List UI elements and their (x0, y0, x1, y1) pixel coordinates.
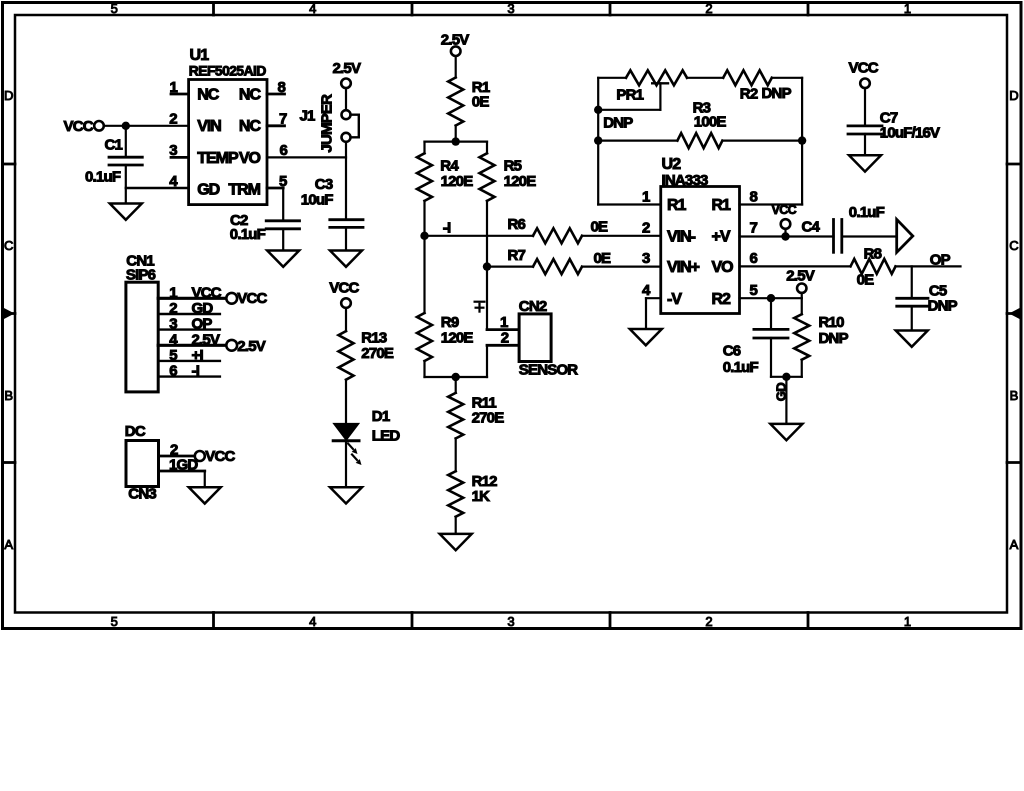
wire CN2 pin2 to R9/R11 rail (487, 344, 519, 347)
svg-text:VCC: VCC (192, 284, 222, 301)
junction pin5/C6 (767, 294, 775, 302)
svg-text:2: 2 (705, 1, 712, 16)
ground below C2 (267, 251, 299, 267)
svg-text:OP: OP (192, 316, 213, 333)
svg-text:C3: C3 (315, 176, 333, 193)
wire VCC to U1 pin2 (104, 125, 189, 127)
svg-text:1: 1 (500, 314, 508, 331)
wire GD rail to ground (785, 377, 787, 424)
svg-text:GD: GD (197, 182, 219, 199)
svg-text:R2: R2 (712, 291, 732, 308)
wire R5 node down to CN2 pin1 (486, 267, 488, 330)
svg-text:5: 5 (111, 1, 118, 16)
capacitor C2 0.1uF (266, 219, 299, 222)
svg-text:-I: -I (443, 220, 451, 237)
svg-text:7: 7 (750, 219, 758, 236)
capacitor C5 DNP (911, 266, 913, 298)
wire R12 to ground (455, 517, 457, 534)
svg-text:B: B (1010, 388, 1019, 403)
svg-text:NC: NC (239, 118, 262, 135)
wire rail R4-R5 tops (425, 141, 488, 143)
resistor R10 DNP (801, 298, 803, 314)
svg-text:U2: U2 (662, 156, 682, 173)
VCC terminal at U2 pin7 (781, 219, 791, 229)
resistor R3 100E (598, 140, 677, 142)
svg-text:10uF/16V: 10uF/16V (880, 124, 940, 141)
ground below C1 (110, 204, 142, 220)
svg-text:DNP: DNP (603, 114, 633, 131)
svg-text:TEMP: TEMP (197, 150, 239, 167)
ground below CN3 (189, 487, 221, 503)
wire R13 to D1 (345, 380, 347, 424)
U1 pin 7 stub (267, 124, 285, 127)
svg-text:+I: +I (192, 347, 204, 364)
junction R4 / -I node (420, 232, 428, 240)
svg-text:2: 2 (642, 219, 650, 236)
svg-text:C1: C1 (105, 137, 123, 154)
CN1 pin 2 (GD) (158, 313, 220, 315)
wire left branch of gain loop (597, 78, 599, 205)
terminal 2.5V at CN1 pin4 (226, 340, 237, 351)
svg-text:0E: 0E (594, 250, 612, 267)
ground below C7 (849, 155, 881, 171)
svg-text:OP: OP (930, 251, 951, 268)
svg-text:D: D (4, 88, 13, 103)
svg-text:NC: NC (197, 86, 220, 103)
wire U2 pin7 to C4 (740, 235, 834, 237)
svg-text:0.1uF: 0.1uF (849, 204, 885, 221)
wire U1 GD pin4 to C1 (126, 187, 189, 189)
svg-text:REF5025AID: REF5025AID (189, 64, 267, 79)
U1 pin 8 stub (267, 93, 285, 96)
svg-text:1: 1 (904, 614, 911, 629)
svg-text:2: 2 (705, 614, 712, 629)
svg-text:A: A (4, 537, 13, 552)
junction node VCC/C1 (122, 122, 130, 130)
svg-text:3: 3 (642, 250, 650, 267)
svg-text:B: B (4, 388, 13, 403)
resistor R6 0E (533, 228, 582, 243)
junction R3 left (594, 136, 602, 144)
svg-text:100E: 100E (694, 114, 727, 131)
junction pin7/VCC (781, 232, 789, 240)
svg-text:VCC: VCC (849, 59, 879, 76)
junction GD rail (782, 373, 790, 381)
drawing frame outer border (3, 3, 1022, 629)
ground below GD rail (770, 424, 802, 440)
svg-text:1: 1 (170, 79, 178, 96)
svg-text:2: 2 (169, 300, 177, 317)
svg-text:CN3: CN3 (128, 486, 156, 503)
wire D1 to ground (345, 441, 347, 487)
frame center arrow right (1009, 308, 1021, 320)
svg-text:3: 3 (169, 316, 177, 333)
svg-text:NC: NC (239, 86, 262, 103)
svg-text:6: 6 (750, 250, 758, 267)
junction R5 / R7 node (483, 262, 491, 270)
svg-text:120E: 120E (441, 173, 474, 190)
junction R1 bottom (452, 137, 460, 145)
svg-text:R8: R8 (864, 245, 882, 262)
terminal VCC at CN1 pin1 (226, 293, 237, 304)
svg-text:VIN-: VIN- (667, 229, 696, 246)
svg-text:U1: U1 (190, 47, 210, 64)
wire R5 node to U2 VIN+ with R7 (487, 266, 533, 268)
svg-text:A: A (1010, 537, 1019, 552)
wire U2 pin6 VO to R8 (740, 265, 851, 267)
svg-text:1: 1 (169, 284, 177, 301)
svg-text:C6: C6 (723, 343, 741, 360)
resistor R1 0E (455, 56, 457, 77)
ground below C5 (896, 331, 928, 347)
GD rail below C6/R10 (771, 376, 802, 378)
capacitor C3 10uF (330, 218, 363, 221)
svg-text:JUMPER: JUMPER (319, 94, 336, 153)
svg-text:D1: D1 (372, 408, 390, 425)
svg-text:8: 8 (750, 189, 758, 206)
svg-text:2.5V: 2.5V (237, 338, 265, 355)
junction rail to R11 (452, 373, 460, 381)
ground below R12 (440, 534, 472, 550)
svg-text:TRM: TRM (228, 182, 260, 199)
capacitor C6 0.1uF (770, 298, 772, 329)
wire U1 pin6 VO to jumper column (267, 156, 346, 158)
svg-text:7: 7 (279, 110, 287, 127)
svg-text:5: 5 (169, 347, 177, 364)
svg-text:VIN+: VIN+ (667, 259, 700, 276)
jumper J1 pin circles and shunt (342, 110, 351, 119)
svg-text:VCC: VCC (205, 448, 235, 465)
svg-text:2.5V: 2.5V (786, 268, 814, 285)
wire -I node to U2 VIN- with R6 (425, 235, 534, 237)
svg-text:C4: C4 (802, 219, 821, 236)
frame column dividers (212, 3, 215, 16)
svg-text:3: 3 (169, 142, 177, 159)
CN1 pin 1 (VCC) (158, 297, 227, 300)
potentiometer PR1 element (626, 70, 687, 85)
svg-text:-V: -V (667, 291, 682, 308)
resistor R4 120E (423, 142, 425, 154)
svg-text:VO: VO (712, 259, 734, 276)
U1 pin 3 stub (171, 156, 189, 159)
svg-text:R10: R10 (819, 314, 845, 331)
resistor R7 0E (533, 259, 582, 274)
capacitor C1 0.1uF (125, 126, 127, 157)
svg-text:3: 3 (507, 1, 514, 16)
svg-text:5: 5 (750, 282, 758, 299)
svg-text:R1: R1 (712, 197, 732, 214)
LED D1 anode triangle (334, 424, 359, 440)
svg-text:0E: 0E (472, 94, 490, 111)
svg-text:2.5V: 2.5V (192, 331, 220, 348)
wire U2 pin8 to right branch (740, 203, 803, 205)
svg-text:DNP: DNP (928, 298, 958, 315)
frame row dividers (3, 163, 16, 166)
resistor R9 120E (423, 236, 425, 313)
svg-text:-I: -I (192, 363, 200, 380)
resistor R12 1K (448, 471, 463, 517)
wire U2 pin1 to left branch (598, 203, 661, 205)
svg-text:INA333: INA333 (662, 172, 709, 189)
svg-text:GD: GD (192, 300, 214, 317)
svg-text:0.1uF: 0.1uF (723, 359, 759, 376)
svg-text:5: 5 (111, 614, 118, 629)
ground below C3 (330, 251, 362, 267)
svg-text:R2: R2 (740, 86, 758, 103)
top rail of loop (598, 77, 626, 79)
LED D1 cathode bar (333, 439, 359, 442)
svg-text:2.5V: 2.5V (333, 60, 361, 77)
svg-text:VCC: VCC (64, 118, 94, 135)
resistor R2 DNP (723, 70, 772, 85)
IC U1 REF5025AID body (189, 80, 267, 205)
svg-text:1GD: 1GD (169, 457, 198, 474)
svg-text:VIN: VIN (197, 118, 221, 135)
wire C4 to output port (842, 235, 897, 237)
svg-text:0E: 0E (591, 219, 609, 236)
svg-text:6: 6 (169, 363, 177, 380)
wire U2 pin5 R2 to 2.5V column (740, 297, 802, 299)
svg-text:VCC: VCC (329, 280, 359, 297)
ground below D1 (330, 487, 362, 503)
svg-text:R6: R6 (508, 216, 526, 233)
CN1 pin 6 (-I) (158, 375, 220, 377)
svg-text:120E: 120E (441, 329, 474, 346)
CN3 pin 2 wire to VCC terminal (159, 455, 196, 458)
PR1 wiper (652, 82, 668, 84)
svg-text:0E: 0E (857, 272, 875, 289)
svg-text:SENSOR: SENSOR (519, 361, 579, 378)
svg-text:270E: 270E (472, 410, 505, 427)
U2 pin4 -V wire to ground (646, 297, 661, 299)
IC U2 INA333 body (661, 187, 740, 314)
resistor R8 0E (851, 259, 896, 274)
svg-text:R1: R1 (667, 197, 687, 214)
svg-text:0.1uF: 0.1uF (230, 226, 266, 243)
CN1 pin 5 (+I) (158, 360, 220, 362)
wire jumper to VO node and C3 (345, 142, 347, 220)
svg-text:VO: VO (239, 150, 261, 167)
wire R11 to R12 (455, 438, 457, 471)
output port triangle (897, 219, 913, 252)
CN3 pin 1 GD wire (159, 470, 205, 473)
wire 2.5V to jumper (345, 88, 347, 110)
LED light emission arrows (348, 444, 362, 466)
svg-text:J1: J1 (300, 107, 316, 124)
svg-text:VCC: VCC (772, 203, 797, 217)
svg-text:C: C (1009, 238, 1018, 253)
svg-text:3: 3 (507, 614, 514, 629)
resistor R5 120E (486, 142, 488, 154)
svg-text:10uF: 10uF (301, 191, 333, 208)
connector CN1 SIP6 body (126, 282, 158, 392)
svg-text:1: 1 (642, 189, 650, 206)
svg-text:DNP: DNP (762, 85, 792, 102)
svg-text:4: 4 (309, 614, 316, 629)
svg-text:VCC: VCC (237, 290, 267, 307)
+I net label rotated (bar over plus) (475, 302, 485, 312)
U1 pin 1 stub (171, 93, 189, 96)
ground below U2 pin4 (630, 329, 662, 345)
resistor R13 270E (345, 308, 347, 331)
junction PR1 wiper to left branch (594, 106, 602, 114)
svg-text:DC: DC (125, 423, 146, 440)
connector CN2 SENSOR body (519, 314, 551, 362)
svg-text:8: 8 (278, 79, 286, 96)
wire U1 pin5 TRM to C2 (267, 187, 283, 190)
frame center arrow left (3, 308, 15, 320)
svg-text:120E: 120E (504, 173, 537, 190)
svg-text:SIP6: SIP6 (126, 267, 156, 284)
svg-text:R7: R7 (508, 247, 526, 264)
CN1 pin 4 (2.5V) (158, 344, 227, 347)
svg-text:0.1uF: 0.1uF (85, 169, 121, 186)
svg-text:C: C (4, 238, 13, 253)
capacitor C7 10uF/16V (864, 88, 866, 126)
drawing frame inner border (15, 15, 1007, 613)
svg-text:CN2: CN2 (519, 298, 547, 315)
svg-text:+V: +V (712, 229, 731, 246)
svg-text:D: D (1009, 88, 1018, 103)
right branch of loop (801, 78, 803, 205)
svg-text:1K: 1K (472, 488, 491, 505)
connector CN3 DC body (126, 441, 159, 487)
svg-text:LED: LED (372, 427, 401, 444)
svg-text:4: 4 (309, 1, 316, 16)
junction R3 right (798, 136, 806, 144)
svg-text:PR1: PR1 (616, 87, 643, 104)
svg-text:4: 4 (642, 282, 651, 299)
svg-text:270E: 270E (361, 345, 394, 362)
CN1 pin 3 (OP) (158, 328, 220, 330)
capacitor C4 0.1uF (832, 220, 835, 253)
resistor R11 270E (455, 377, 457, 393)
svg-text:DNP: DNP (819, 330, 849, 347)
svg-text:1: 1 (904, 1, 911, 16)
